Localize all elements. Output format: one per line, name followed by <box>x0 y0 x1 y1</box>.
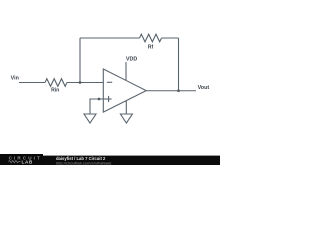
node junction <box>98 98 101 101</box>
node junction <box>79 81 82 84</box>
logo zigzag <box>9 160 21 162</box>
wire <box>67 82 103 84</box>
svg-text:Rin: Rin <box>51 88 59 94</box>
svg-text:Vout: Vout <box>198 85 210 91</box>
ground <box>120 114 132 123</box>
node junction <box>177 89 180 92</box>
wire <box>162 37 179 39</box>
ground <box>84 114 96 123</box>
wire <box>79 38 81 83</box>
wire <box>80 37 140 39</box>
wire <box>178 38 180 91</box>
svg-text:LAB: LAB <box>22 159 34 164</box>
op-amp U1 <box>103 69 146 112</box>
wire <box>19 82 45 84</box>
power VDD <box>126 56 137 80</box>
svg-text:VDD: VDD <box>126 56 137 62</box>
resistor Rin <box>45 79 67 87</box>
svg-text:Rf: Rf <box>148 45 154 51</box>
wire <box>125 101 127 114</box>
wire <box>146 90 196 92</box>
watermark bar <box>0 156 220 165</box>
svg-text:Vin: Vin <box>11 76 19 82</box>
wire <box>90 99 103 114</box>
resistor Rf <box>140 34 162 42</box>
svg-text:http://circuitlab.com/c/nrtwfa: http://circuitlab.com/c/nrtwfawls <box>56 160 111 165</box>
